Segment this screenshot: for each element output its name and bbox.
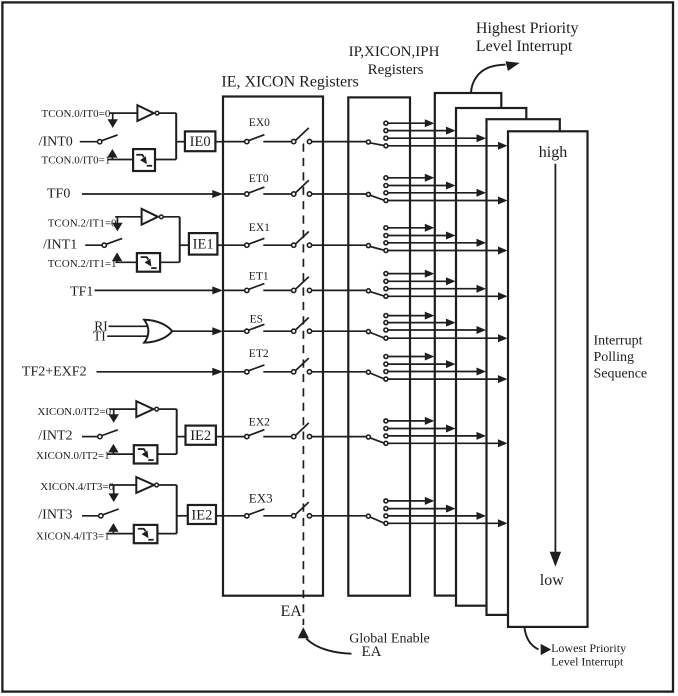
wire EX3 to priority level 1 bbox=[388, 500, 426, 502]
wire EX1 to priority level 4 bbox=[388, 250, 500, 252]
wire /INT0 to switch bbox=[80, 141, 98, 143]
svg-text:TCON.2/IT1=0: TCON.2/IT1=0 bbox=[48, 217, 117, 229]
priority level contact 4 of EX2 bbox=[384, 441, 388, 445]
IP/XICON/IPH register box bbox=[348, 97, 410, 595]
svg-text:ET0: ET0 bbox=[249, 173, 269, 185]
wire row ET0 to IP register bbox=[312, 193, 367, 195]
wire INT3 edge path bbox=[108, 533, 134, 535]
wire RI into OR gate bbox=[109, 325, 150, 327]
wire edge detector out INT0 bbox=[155, 159, 176, 161]
wire ET0 to priority level 4 bbox=[388, 200, 500, 202]
wire TF0 to IE box bbox=[82, 193, 214, 195]
priority level contact 3 of ET0 bbox=[384, 191, 388, 195]
inverter U-INT1 bbox=[142, 209, 158, 225]
arrowhead: EA enable (up) bbox=[298, 627, 309, 638]
wire TI into OR gate bbox=[107, 335, 149, 337]
wire join INT3 paths bbox=[176, 485, 178, 534]
switch EA-gate on row EX1 bbox=[292, 243, 296, 247]
priority level contact 1 of EX2 bbox=[384, 419, 388, 423]
switch ET2 priority select (IP/IPH) bbox=[366, 370, 370, 374]
svg-text:TI: TI bbox=[93, 329, 106, 344]
priority level contact 2 of EX1 bbox=[384, 234, 388, 238]
wire ET0 to priority level 2 bbox=[388, 185, 448, 187]
wire ET0 to priority level 3 bbox=[388, 192, 478, 194]
svg-text:Polling: Polling bbox=[594, 350, 634, 365]
arrowhead TF2+EXF2 bbox=[212, 368, 223, 376]
wire inverter out INT1 bbox=[163, 216, 180, 218]
wire row ET2 to IP register bbox=[312, 371, 367, 373]
svg-text:EX3: EX3 bbox=[249, 491, 273, 506]
falling-edge detector INT0 bbox=[133, 149, 155, 171]
interrupt flag box IE0 (INT0) bbox=[185, 131, 216, 151]
svg-text:EX1: EX1 bbox=[249, 222, 270, 234]
wire row ES to IP register bbox=[312, 330, 367, 332]
wire /INT3 to switch bbox=[82, 515, 99, 517]
wire: curved arrow to Highest Priority label bbox=[471, 65, 506, 93]
corner rise for INT0 edge select bbox=[111, 158, 113, 160]
switch EX2 (IE/XICON enable bit) bbox=[224, 436, 245, 438]
wire ET1 to priority level 2 bbox=[388, 280, 448, 282]
priority level contact 4 of ET2 bbox=[384, 377, 388, 381]
switch EX3 (IE/XICON enable bit) bbox=[224, 515, 245, 517]
switch /INT3 trigger select bbox=[99, 514, 103, 518]
switch EX3 priority select (IP/IPH) bbox=[366, 514, 370, 518]
switch EX2 priority select (IP/IPH) bbox=[366, 435, 370, 439]
falling-edge symbol INT1 bbox=[141, 257, 149, 259]
inverter U-INT0 bbox=[137, 105, 153, 121]
priority level contact 1 of ET2 bbox=[384, 355, 388, 359]
priority level contact 3 of ES bbox=[384, 328, 388, 332]
switch ET1 (IE/XICON enable bit) bbox=[224, 289, 245, 291]
priority level contact 1 of EX3 bbox=[384, 499, 388, 503]
switch ET2 (IE/XICON enable bit) bbox=[224, 371, 245, 373]
svg-text:TCON.0/IT0=0: TCON.0/IT0=0 bbox=[42, 108, 111, 120]
svg-text:IE, XICON Registers: IE, XICON Registers bbox=[221, 74, 358, 91]
priority level contact 3 of ET1 bbox=[384, 287, 388, 291]
switch EA-gate on row EX3 bbox=[292, 514, 296, 518]
svg-text:Highest Priority: Highest Priority bbox=[476, 20, 579, 37]
svg-text:XICON.4/IT3=1: XICON.4/IT3=1 bbox=[36, 531, 110, 543]
wire ES to priority level 2 bbox=[388, 322, 448, 324]
priority level contact 4 of EX0 bbox=[384, 144, 388, 148]
switch /INT0 trigger select bbox=[98, 140, 102, 144]
wire row ET1 to IP register bbox=[312, 289, 367, 291]
wire INT1 level path bbox=[115, 216, 141, 218]
wire EX3 to priority level 3 bbox=[388, 515, 478, 517]
wire to flag box INT0 bbox=[176, 141, 185, 143]
priority level contact 1 of ET0 bbox=[384, 176, 388, 180]
wire ET2 to priority level 4 bbox=[388, 378, 500, 380]
priority level contact 4 of ET1 bbox=[384, 294, 388, 298]
inverter bubble INT3 bbox=[155, 483, 159, 487]
priority level contact 2 of EX0 bbox=[384, 129, 388, 133]
wire TF2+EXF2 to IE box bbox=[97, 371, 214, 373]
wire EX1 to priority level 2 bbox=[388, 235, 448, 237]
svg-text:high: high bbox=[539, 144, 567, 161]
priority level contact 3 of EX0 bbox=[384, 136, 388, 140]
arrowhead INT0 level select (down) bbox=[108, 119, 118, 128]
svg-text:TCON.0/IT0=1: TCON.0/IT0=1 bbox=[42, 155, 111, 167]
wire join INT1 paths bbox=[179, 217, 181, 262]
arrowhead: lowest priority (right) bbox=[541, 644, 552, 655]
svg-text:/INT0: /INT0 bbox=[39, 134, 73, 149]
corner drop for INT1 level select bbox=[116, 217, 118, 223]
wire INT1 edge path bbox=[115, 261, 136, 263]
svg-text:Lowest Priority: Lowest Priority bbox=[551, 641, 626, 655]
wire edge detector out INT2 bbox=[157, 453, 176, 455]
arrowhead INT2 level select (down) bbox=[109, 414, 119, 423]
wire ES to priority level 3 bbox=[388, 329, 478, 331]
wire: EA global enable dashed line bbox=[302, 144, 304, 626]
wire IE1 to IE box bbox=[217, 244, 224, 246]
wire edge detector out INT3 bbox=[157, 533, 176, 535]
svg-text:Level Interrupt: Level Interrupt bbox=[551, 655, 624, 669]
svg-text:EX2: EX2 bbox=[249, 417, 270, 429]
arrowhead INT3 level select (down) bbox=[109, 493, 119, 502]
priority level contact 2 of EX3 bbox=[384, 507, 388, 511]
wire inverter out INT2 bbox=[159, 408, 177, 410]
wire ES to priority level 1 bbox=[388, 315, 426, 317]
priority level contact 2 of ET1 bbox=[384, 279, 388, 283]
arrowhead: polling sequence (down) bbox=[550, 552, 561, 567]
svg-text:XICON.0/IT2=0: XICON.0/IT2=0 bbox=[37, 406, 111, 418]
wire row EX2 to IP register bbox=[312, 436, 367, 438]
wire EX2 to priority level 3 bbox=[388, 435, 478, 437]
wire /INT2 to switch bbox=[82, 436, 98, 438]
wire TF1 to IE box bbox=[95, 289, 214, 291]
priority level contact 4 of EX3 bbox=[384, 521, 388, 525]
wire ET2 to priority level 2 bbox=[388, 363, 448, 365]
svg-text:Interrupt: Interrupt bbox=[594, 334, 643, 349]
switch /INT2 trigger select bbox=[98, 434, 102, 438]
switch ES priority select (IP/IPH) bbox=[366, 330, 370, 334]
wire EX0 to priority level 3 bbox=[388, 137, 478, 139]
inverter U-INT2 bbox=[136, 401, 153, 417]
wire EX0 to priority level 4 bbox=[388, 145, 500, 147]
arrowhead TF1 bbox=[212, 286, 223, 294]
wire EX2 to priority level 1 bbox=[388, 420, 426, 422]
wire ET2 to priority level 1 bbox=[388, 356, 426, 358]
switch EX0 priority select (IP/IPH) bbox=[366, 140, 370, 144]
wire ET0 to priority level 1 bbox=[388, 177, 426, 179]
inverter U-INT3 bbox=[136, 477, 154, 493]
wire join INT2 paths bbox=[176, 409, 178, 454]
svg-text:EA: EA bbox=[281, 603, 303, 620]
svg-text:XICON.4/IT3=0: XICON.4/IT3=0 bbox=[40, 481, 114, 493]
falling-edge detector INT3 bbox=[134, 525, 158, 543]
OR gate U1 (RI+TI) bbox=[144, 320, 172, 343]
wire IE2 to IE box bbox=[216, 436, 224, 438]
arrowhead INT1 edge select (up) bbox=[112, 253, 122, 262]
corner drop for INT3 level select bbox=[113, 485, 115, 494]
switch EA-gate on row ET2 bbox=[292, 370, 296, 374]
corner drop for INT2 level select bbox=[113, 409, 115, 415]
svg-text:low: low bbox=[540, 572, 564, 589]
svg-text:/INT2: /INT2 bbox=[38, 429, 72, 444]
priority level contact 4 of ET0 bbox=[384, 199, 388, 203]
svg-text:EX0: EX0 bbox=[249, 117, 270, 129]
wire: polling sequence arrow shaft bbox=[554, 164, 556, 552]
wire EX3 to priority level 4 bbox=[388, 522, 500, 524]
wire EX3 to priority level 2 bbox=[388, 508, 448, 510]
interrupt flag box IE2 (INT2) bbox=[186, 426, 216, 445]
wire ET1 to priority level 4 bbox=[388, 295, 500, 297]
priority cascade box 3 bbox=[487, 119, 560, 615]
wire EX0 to priority level 2 bbox=[388, 130, 448, 132]
priority level contact 3 of EX3 bbox=[384, 514, 388, 518]
priority level contact 3 of EX1 bbox=[384, 241, 388, 245]
wire INT2 edge path bbox=[108, 453, 134, 455]
svg-text:Level Interrupt: Level Interrupt bbox=[476, 38, 573, 55]
inverter bubble INT0 bbox=[155, 111, 159, 115]
wire row EX1 to IP register bbox=[312, 244, 367, 246]
wire IE2 to IE box bbox=[216, 515, 224, 517]
svg-text:ET2: ET2 bbox=[249, 348, 269, 360]
priority level contact 2 of ET2 bbox=[384, 362, 388, 366]
priority level contact 4 of EX1 bbox=[384, 249, 388, 253]
corner rise for INT1 edge select bbox=[116, 260, 118, 262]
arrowhead INT1 level select (down) bbox=[112, 223, 122, 232]
falling-edge symbol INT3 bbox=[138, 529, 146, 531]
svg-text:TCON.2/IT1=1: TCON.2/IT1=1 bbox=[48, 258, 117, 270]
priority level contact 1 of EX0 bbox=[384, 121, 388, 125]
svg-text:TF2+EXF2: TF2+EXF2 bbox=[22, 364, 87, 379]
corner rise for INT3 edge select bbox=[112, 532, 114, 534]
svg-text:Registers: Registers bbox=[368, 62, 424, 78]
priority level contact 2 of EX2 bbox=[384, 427, 388, 431]
wire IE0 to IE box bbox=[215, 141, 224, 143]
svg-text:EA: EA bbox=[362, 644, 382, 660]
wire EX2 to priority level 4 bbox=[388, 442, 500, 444]
svg-text:IE0: IE0 bbox=[190, 134, 211, 150]
interrupt flag box IE2 (INT3) bbox=[188, 505, 216, 524]
priority cascade box 2 bbox=[456, 108, 526, 606]
wire to flag box INT1 bbox=[180, 244, 189, 246]
wire INT0 edge path bbox=[108, 159, 134, 161]
priority level contact 1 of EX1 bbox=[384, 226, 388, 230]
arrowhead TF0 bbox=[212, 190, 223, 198]
switch EA-gate on row ES bbox=[292, 329, 296, 333]
inverter bubble INT1 bbox=[159, 215, 163, 219]
wire /INT1 to switch bbox=[85, 244, 102, 246]
svg-text:Sequence: Sequence bbox=[594, 367, 648, 382]
falling-edge detector INT2 bbox=[134, 445, 158, 463]
svg-text:IP,XICON,IPH: IP,XICON,IPH bbox=[349, 44, 440, 60]
wire ET2 to priority level 3 bbox=[388, 371, 478, 373]
priority cascade box 4 (frontmost, polling sequence) bbox=[508, 131, 588, 627]
wire INT2 level path bbox=[109, 408, 136, 410]
switch EX1 (IE/XICON enable bit) bbox=[224, 244, 245, 246]
svg-text:XICON.0/IT2=1: XICON.0/IT2=1 bbox=[36, 450, 110, 462]
priority level contact 2 of ET0 bbox=[384, 184, 388, 188]
wire edge detector out INT1 bbox=[160, 261, 180, 263]
wire inverter out INT3 bbox=[159, 484, 177, 486]
corner rise for INT2 edge select bbox=[112, 452, 114, 454]
svg-text:/INT3: /INT3 bbox=[38, 508, 72, 523]
priority level contact 1 of ET1 bbox=[384, 272, 388, 276]
priority level contact 2 of ES bbox=[384, 321, 388, 325]
wire ET1 to priority level 3 bbox=[388, 288, 478, 290]
switch EX1 priority select (IP/IPH) bbox=[366, 244, 370, 248]
falling-edge symbol INT0 bbox=[136, 155, 144, 157]
priority level contact 3 of ET2 bbox=[384, 370, 388, 374]
wire EX1 to priority level 3 bbox=[388, 242, 478, 244]
wire INT3 level path bbox=[109, 484, 136, 486]
wire: curved arrow to Lowest Priority label bbox=[524, 627, 538, 649]
svg-text:TF1: TF1 bbox=[70, 284, 93, 299]
arrowhead ES bbox=[212, 327, 223, 335]
switch EA-gate on row ET1 bbox=[292, 288, 296, 292]
switch /INT1 trigger select bbox=[102, 243, 106, 247]
wire ES to priority level 4 bbox=[388, 337, 500, 339]
interrupt flag box IE1 (INT1) bbox=[189, 233, 218, 255]
switch ES (IE/XICON enable bit) bbox=[224, 330, 245, 332]
wire INT0 level path bbox=[110, 112, 138, 114]
svg-text:IE2: IE2 bbox=[190, 428, 211, 444]
priority level contact 1 of ES bbox=[384, 314, 388, 318]
svg-text:/INT1: /INT1 bbox=[43, 238, 77, 253]
priority level contact 4 of ES bbox=[384, 336, 388, 340]
svg-text:IE2: IE2 bbox=[191, 507, 212, 523]
switch ET0 priority select (IP/IPH) bbox=[366, 192, 370, 196]
wire inverter out INT0 bbox=[159, 112, 176, 114]
switch ET0 (IE/XICON enable bit) bbox=[224, 193, 245, 195]
IE/XICON register box bbox=[223, 97, 323, 596]
wire EX1 to priority level 1 bbox=[388, 227, 426, 229]
switch EA-gate on row ET0 bbox=[292, 192, 296, 196]
switch EX0 (IE/XICON enable bit) bbox=[224, 141, 245, 143]
wire ET1 to priority level 1 bbox=[388, 273, 426, 275]
wire EX2 to priority level 2 bbox=[388, 428, 448, 430]
arrowhead: highest priority bbox=[506, 61, 520, 71]
falling-edge detector INT1 bbox=[137, 253, 160, 272]
wire to flag box INT2 bbox=[177, 436, 186, 438]
arrowhead INT2 edge select (up) bbox=[108, 444, 118, 453]
inverter bubble INT2 bbox=[155, 407, 159, 411]
priority level contact 3 of EX2 bbox=[384, 434, 388, 438]
svg-text:TF0: TF0 bbox=[47, 186, 70, 201]
wire: curved arrow from Global Enable EA bbox=[306, 639, 351, 654]
svg-text:IE1: IE1 bbox=[193, 237, 214, 253]
svg-text:ES: ES bbox=[250, 314, 263, 326]
switch EA-gate on row EX0 bbox=[292, 139, 296, 143]
priority cascade box 1 (backmost) bbox=[435, 93, 502, 596]
arrowhead INT3 edge select (up) bbox=[108, 523, 118, 532]
corner drop for INT0 level select bbox=[112, 113, 114, 120]
switch EA-gate on row EX2 bbox=[292, 434, 296, 438]
wire row EX3 to IP register bbox=[312, 515, 367, 517]
arrowhead INT0 edge select (up) bbox=[107, 149, 117, 158]
wire EX0 to priority level 1 bbox=[388, 122, 426, 124]
svg-text:ET1: ET1 bbox=[249, 271, 269, 283]
wire join INT0 paths bbox=[175, 113, 177, 159]
wire row EX0 to IP register bbox=[312, 141, 367, 143]
wire to flag box INT3 bbox=[177, 515, 188, 517]
switch ET1 priority select (IP/IPH) bbox=[366, 289, 370, 293]
wire OR output (ES) to IE box bbox=[172, 330, 213, 332]
falling-edge symbol INT2 bbox=[138, 449, 146, 451]
